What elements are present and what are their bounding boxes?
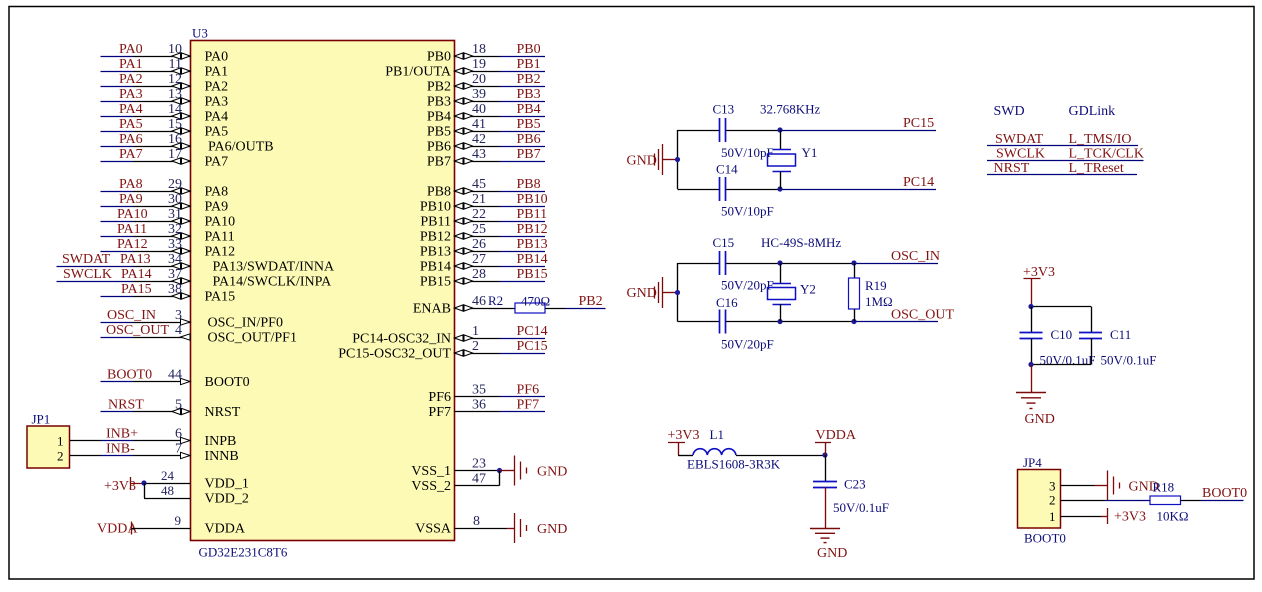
U3 pin name PA6/OUTB [208,140,274,155]
svg-text:PA0: PA0 [119,42,143,57]
svg-text:GD32E231C8T6: GD32E231C8T6 [199,545,288,560]
capacitor C14 [716,162,774,219]
wire net PB2 (from R2) [545,294,606,309]
svg-text:29: 29 [168,177,182,192]
svg-text:GND: GND [627,154,657,169]
svg-text:7: 7 [175,442,182,457]
svg-text:30: 30 [168,192,182,207]
svg-text:8: 8 [473,514,480,529]
svg-text:PA14/SWCLK/INPA: PA14/SWCLK/INPA [213,275,333,290]
svg-text:46: 46 [472,294,486,309]
U3 pin name PA2 [205,80,229,95]
svg-text:SWCLK: SWCLK [63,267,112,282]
wire net PA12 (left pin 33) [101,237,191,254]
pin 42 IO arrow [455,143,473,149]
svg-text:SWCLK: SWCLK [996,147,1045,162]
JP4 pin number 3 [1049,479,1056,494]
svg-text:PA7: PA7 [205,155,229,170]
svg-text:PF7: PF7 [428,405,451,420]
svg-text:PB8: PB8 [517,177,541,192]
pin 29 IO arrow [172,188,190,194]
svg-text:PB12: PB12 [517,222,548,237]
svg-text:OSC_IN: OSC_IN [891,249,940,264]
svg-text:24: 24 [161,468,175,483]
svg-text:470Ω: 470Ω [521,294,550,309]
U3 pin name PB3 [427,95,451,110]
U3 pin name PA11 [205,230,235,245]
svg-text:SWD: SWD [994,104,1025,119]
capacitor C11 [1079,327,1156,368]
svg-text:PB10: PB10 [420,200,451,215]
power port +3V3 (L1) [668,428,700,455]
wire ENAB pin 46 [455,294,516,311]
wire crystal1 bottom net PC14 [678,175,937,192]
wire net PB12 (right pin 25) [455,222,548,239]
svg-text:PB7: PB7 [427,155,451,170]
svg-text:28: 28 [472,267,486,282]
svg-text:PA8: PA8 [205,185,229,200]
U3 pin name PA14/SWCLK/INPA [213,275,333,290]
designator U3 [192,26,208,41]
svg-text:VSS_1: VSS_1 [411,464,451,479]
wire crystal2 top net OSC_IN [678,249,941,266]
pin 12 IO arrow [172,83,190,89]
U3 pin name PB5 [427,125,451,140]
svg-text:50V/10pF: 50V/10pF [721,145,774,160]
U3 pin name VDD_2 [205,492,249,507]
svg-text:PB2: PB2 [579,294,603,309]
svg-text:INB+: INB+ [106,427,138,442]
junction Y1 bottom [777,186,782,191]
wire net PB7 (right pin 43) [455,147,546,164]
svg-text:42: 42 [472,132,486,147]
junction c10 bottom [1028,362,1033,367]
svg-text:PA14: PA14 [121,267,152,282]
pin 37 IO arrow [172,278,190,284]
capacitor C15 [713,235,774,293]
U3 pin name INPB [205,434,237,449]
svg-text:50V/0.1uF: 50V/0.1uF [1040,353,1096,368]
svg-text:2: 2 [57,449,64,464]
ground symbol (crystal2) [627,277,681,308]
U3 pin name VDD_1 [205,477,249,492]
svg-text:PA9: PA9 [205,200,229,215]
svg-text:NRST: NRST [108,398,144,413]
svg-text:50V/20pF: 50V/20pF [721,278,774,293]
svg-text:PB1/OUTA: PB1/OUTA [385,65,452,80]
svg-text:43: 43 [472,147,486,162]
junction VSS node [497,468,502,473]
capacitor C23 [813,455,889,515]
svg-text:PB2: PB2 [517,72,541,87]
svg-text:PB8: PB8 [427,185,451,200]
U3 pin name PB0 [427,50,451,65]
U3 pin name PC14-OSC32_IN [352,332,451,347]
svg-text:11: 11 [169,57,182,72]
svg-text:L_TMS/IO: L_TMS/IO [1069,132,1132,147]
svg-text:35: 35 [472,383,486,398]
svg-text:25: 25 [472,222,486,237]
svg-text:OSC_IN: OSC_IN [107,308,156,323]
svg-text:GND: GND [537,522,567,537]
U3 pin name VSSA [415,522,452,537]
U3 pin name PB7 [427,155,451,170]
U3 pin name PB10 [420,200,451,215]
pin 17 IO arrow [172,158,190,164]
svg-text:VSSA: VSSA [415,522,452,537]
wire net PB3 (right pin 39) [455,87,546,104]
U3 pin name PA12 [205,245,236,260]
svg-text:PA13: PA13 [120,252,151,267]
U3 pin name VSS_2 [411,479,451,494]
svg-text:VDD_2: VDD_2 [205,492,249,507]
U3 pin name PF6 [428,390,451,405]
wire net PB8 (right pin 45) [455,177,546,194]
svg-text:41: 41 [472,117,486,132]
wire net BOOT0 (left pin 44) [101,368,191,385]
svg-text:PA7: PA7 [119,147,143,162]
svg-text:PB13: PB13 [420,245,451,260]
wire net OSC_OUT (left pin 4) [101,323,191,340]
svg-text:40: 40 [472,102,486,117]
svg-text:PA10: PA10 [117,207,148,222]
wire net INB+ (left pin 6) [70,427,191,444]
junction VDDA node [822,452,827,457]
svg-text:PA15: PA15 [205,290,236,305]
svg-text:C16: C16 [716,295,738,310]
svg-text:22: 22 [472,207,486,222]
svg-text:PB14: PB14 [517,252,548,267]
wire JP4 pin3 to GND [1061,485,1108,487]
pin 20 IO arrow [455,83,473,89]
U3 pin name PB12 [420,230,451,245]
U3 pin name PC15-OSC32_OUT [338,347,451,362]
svg-text:26: 26 [472,237,486,252]
svg-text:20: 20 [472,72,486,87]
pin 3 input arrow [181,319,191,325]
U3 pin name OSC_IN/PF0 [208,316,283,331]
svg-text:L_TReset: L_TReset [1069,161,1124,176]
svg-text:12: 12 [168,72,182,87]
svg-text:PC15: PC15 [903,116,934,131]
U3 pin name PF7 [428,405,451,420]
wire net PB0 (right pin 18) [455,42,546,59]
U3 pin name PA3 [205,95,229,110]
wire net PA14 (left pin 37) [57,267,191,284]
wire gnd node bottom [1028,362,1091,367]
value label GD32E231C8T6 [199,545,288,560]
crystal Y1 [768,130,818,189]
svg-text:PB1: PB1 [517,57,541,72]
svg-text:U3: U3 [192,26,208,41]
crystal Y2 [768,263,816,322]
wire VSS_2 pin 47 [455,471,500,487]
svg-text:PA3: PA3 [205,95,229,110]
svg-text:PA11: PA11 [205,230,235,245]
wire net PF7 (right pin 36) [455,398,546,413]
U3 pin name PB14 [420,260,451,275]
pin 18 IO arrow [455,53,473,59]
svg-text:OSC_OUT/PF1: OSC_OUT/PF1 [208,331,297,346]
svg-text:BOOT0: BOOT0 [205,375,250,390]
svg-text:33: 33 [168,237,182,252]
resistor R18 [1150,480,1189,524]
svg-text:1MΩ: 1MΩ [865,294,893,309]
pin 5 IO arrow [172,408,190,414]
svg-text:BOOT0: BOOT0 [1024,531,1066,546]
wire stub SWCLK row [987,147,1144,162]
junction Y1 top [777,127,782,132]
U3 pin name VSS_1 [411,464,451,479]
svg-text:ENAB: ENAB [413,302,451,317]
pin 30 IO arrow [172,203,190,209]
svg-text:32: 32 [168,222,182,237]
wire net PC15 (right pin 2) [455,339,548,356]
wire net PB6 (right pin 42) [455,132,546,149]
resistor R2 [488,293,550,313]
svg-text:PA3: PA3 [119,87,143,102]
svg-text:1: 1 [472,324,479,339]
svg-text:PA0: PA0 [205,50,229,65]
wire net PA2 (left pin 12) [101,72,191,89]
junction Y2 bottom [777,319,782,324]
pin 40 IO arrow [455,113,473,119]
svg-text:32.768KHz: 32.768KHz [760,102,821,117]
pin 32 IO arrow [172,233,190,239]
wire net PA11 (left pin 32) [101,222,191,239]
svg-text:PB4: PB4 [427,110,451,125]
svg-text:PB7: PB7 [517,147,541,162]
svg-text:INPB: INPB [205,434,237,449]
svg-text:GND: GND [817,546,847,561]
U3 pin name PA4 [205,110,229,125]
svg-text:PA1: PA1 [205,65,229,80]
svg-text:C13: C13 [713,102,735,117]
wire net PA13 (left pin 34) [57,252,191,269]
svg-text:16: 16 [168,132,182,147]
svg-text:PA12: PA12 [205,245,236,260]
svg-text:PB3: PB3 [427,95,451,110]
junction R19 bottom [851,319,856,324]
svg-text:C15: C15 [713,235,735,250]
svg-text:PA15: PA15 [121,282,152,297]
junction at VDD node [141,480,146,485]
wire net PF6 (right pin 35) [455,383,546,398]
pin 2 IO arrow [455,350,473,356]
svg-text:PA11: PA11 [117,222,147,237]
wire VDD_2 pin 48 [144,483,191,499]
pin 21 IO arrow [455,203,473,209]
pin 38 IO arrow [172,293,190,299]
U3 pin name PA0 [205,50,229,65]
svg-text:C10: C10 [1051,327,1073,342]
ground symbol (VSSA) [507,513,567,543]
svg-text:PA5: PA5 [205,125,229,140]
wire net PB2 (right pin 20) [455,72,546,89]
svg-text:PF6: PF6 [428,390,451,405]
pin 6 input arrow [181,437,191,443]
pin 33 IO arrow [172,248,190,254]
wire net PB10 (right pin 21) [455,192,548,209]
pin 44 input arrow [181,378,191,384]
svg-text:GND: GND [537,465,567,480]
U3 pin name PB11 [420,215,451,230]
wire crystal1 left vertical [677,130,679,189]
wire net PA0 (left pin 10) [101,42,191,59]
svg-text:PA1: PA1 [119,57,143,72]
svg-text:21: 21 [472,192,486,207]
power port VDDA (left) [97,522,138,537]
svg-text:VDDA: VDDA [205,522,246,537]
svg-text:38: 38 [168,282,182,297]
JP1 pin number 1 [57,434,64,449]
svg-text:PA4: PA4 [205,110,229,125]
wire net PB5 (right pin 41) [455,117,546,134]
junction Y2 top [777,260,782,265]
svg-text:BOOT0: BOOT0 [1202,486,1247,501]
svg-text:PA8: PA8 [119,177,143,192]
svg-text:C14: C14 [716,162,738,177]
svg-text:PB11: PB11 [420,215,451,230]
svg-text:GND: GND [627,286,657,301]
svg-text:PB6: PB6 [517,132,541,147]
svg-text:+3V3: +3V3 [668,428,700,443]
wire net PA4 (left pin 14) [101,102,191,119]
svg-text:HC-49S-8MHz: HC-49S-8MHz [761,235,841,250]
svg-text:PA2: PA2 [205,80,229,95]
svg-text:PA6/OUTB: PA6/OUTB [208,140,274,155]
svg-text:BOOT0: BOOT0 [107,368,152,383]
wire net PB11 (right pin 22) [455,207,548,224]
power port +3V3 (decoupling) [1023,265,1055,307]
capacitor C13 [713,102,774,161]
svg-text:PB5: PB5 [517,117,541,132]
value label BOOT0 (JP4) [1024,531,1066,546]
resistor R19 [849,263,893,322]
pin 16 IO arrow [172,143,190,149]
wire net PA5 (left pin 15) [101,117,191,134]
svg-text:JP1: JP1 [32,412,51,427]
svg-text:R19: R19 [865,278,887,293]
svg-text:50V/0.1uF: 50V/0.1uF [833,500,889,515]
svg-text:PA10: PA10 [205,215,236,230]
svg-text:PF7: PF7 [517,398,540,413]
pin 14 IO arrow [172,113,190,119]
svg-text:17: 17 [168,147,182,162]
U3 pin name PB1/OUTA [385,65,452,80]
pin 25 IO arrow [455,233,473,239]
svg-text:PB11: PB11 [517,207,548,222]
svg-text:PB15: PB15 [420,275,451,290]
wire net PA10 (left pin 31) [101,207,191,224]
U3 pin name PB4 [427,110,451,125]
svg-text:PC15: PC15 [517,339,548,354]
wire net BOOT0 (from R18) [1181,486,1248,501]
svg-text:PB0: PB0 [517,42,541,57]
connector JP1 [27,426,70,468]
svg-text:PB2: PB2 [427,80,451,95]
svg-text:PB4: PB4 [517,102,541,117]
U3 pin name PA9 [205,200,229,215]
svg-text:45: 45 [472,177,486,192]
svg-text:9: 9 [175,513,182,528]
wire net PA6 (left pin 16) [101,132,191,149]
svg-text:PB5: PB5 [427,125,451,140]
svg-text:C11: C11 [1110,327,1131,342]
pin 31 IO arrow [172,218,190,224]
svg-text:SWDAT: SWDAT [62,252,111,267]
svg-text:Y1: Y1 [802,145,818,160]
pin 13 IO arrow [172,98,190,104]
JP4 pin number 2 [1049,493,1056,508]
svg-text:15: 15 [168,117,182,132]
svg-text:PC15-OSC32_OUT: PC15-OSC32_OUT [338,347,451,362]
svg-text:34: 34 [168,252,182,267]
svg-text:VSS_2: VSS_2 [411,479,451,494]
wire VSS_1 pin 23 [455,457,503,474]
pin 4 output arrow [181,334,191,340]
U3 pin name PA5 [205,125,229,140]
wire net PA1 (left pin 11) [101,57,191,74]
svg-text:PC14: PC14 [903,175,934,190]
wire stub NRST row [987,161,1137,176]
U3 pin name ENAB [413,302,451,317]
pin 15 IO arrow [172,128,190,134]
U3 pin name PB13 [420,245,451,260]
svg-text:+3V3: +3V3 [1114,510,1146,525]
power port +3V3 (JP4 pin1) [1108,508,1147,525]
svg-text:47: 47 [472,472,486,487]
svg-text:OSC_OUT: OSC_OUT [106,323,169,338]
wire net PB15 (right pin 28) [455,267,548,284]
svg-text:PB3: PB3 [517,87,541,102]
pin 39 IO arrow [455,98,473,104]
inductor L1 [678,427,781,472]
svg-text:10KΩ: 10KΩ [1157,509,1189,524]
U3 pin name PA13/SWDAT/INNA [213,260,335,275]
pin 22 IO arrow [455,218,473,224]
junction gnd2 [675,290,680,295]
svg-text:13: 13 [168,87,182,102]
svg-text:NRST: NRST [205,405,241,420]
svg-text:VDD_1: VDD_1 [205,477,249,492]
ground symbol (C23) [810,487,847,561]
ground symbol (crystal1) [627,144,681,175]
IC U3 GD32E231C8T6 body [191,41,455,541]
svg-text:VDDA: VDDA [816,428,857,443]
svg-text:5: 5 [175,398,182,413]
svg-text:PB15: PB15 [517,267,548,282]
pin 26 IO arrow [455,248,473,254]
ground symbol (decoupling) [1016,365,1055,428]
svg-text:PA5: PA5 [119,117,143,132]
wire net NRST (left pin 5) [101,398,191,415]
wire net PA7 (left pin 17) [101,147,191,164]
svg-text:31: 31 [168,207,182,222]
wire VDD_1 pin 24 [141,468,190,486]
pin 46 IO arrow [455,305,473,311]
svg-text:PC14-OSC32_IN: PC14-OSC32_IN [352,332,451,347]
U3 pin name BOOT0 [205,375,250,390]
wire net OSC_IN (left pin 3) [101,308,191,325]
wire net PC14 (right pin 1) [455,324,548,341]
svg-text:NRST: NRST [994,161,1030,176]
connector JP4 [1018,470,1061,529]
JP1 pin number 2 [57,449,64,464]
junction gnd1 [675,157,680,162]
wire VDDA pin 9 [132,513,191,529]
svg-text:19: 19 [472,57,486,72]
